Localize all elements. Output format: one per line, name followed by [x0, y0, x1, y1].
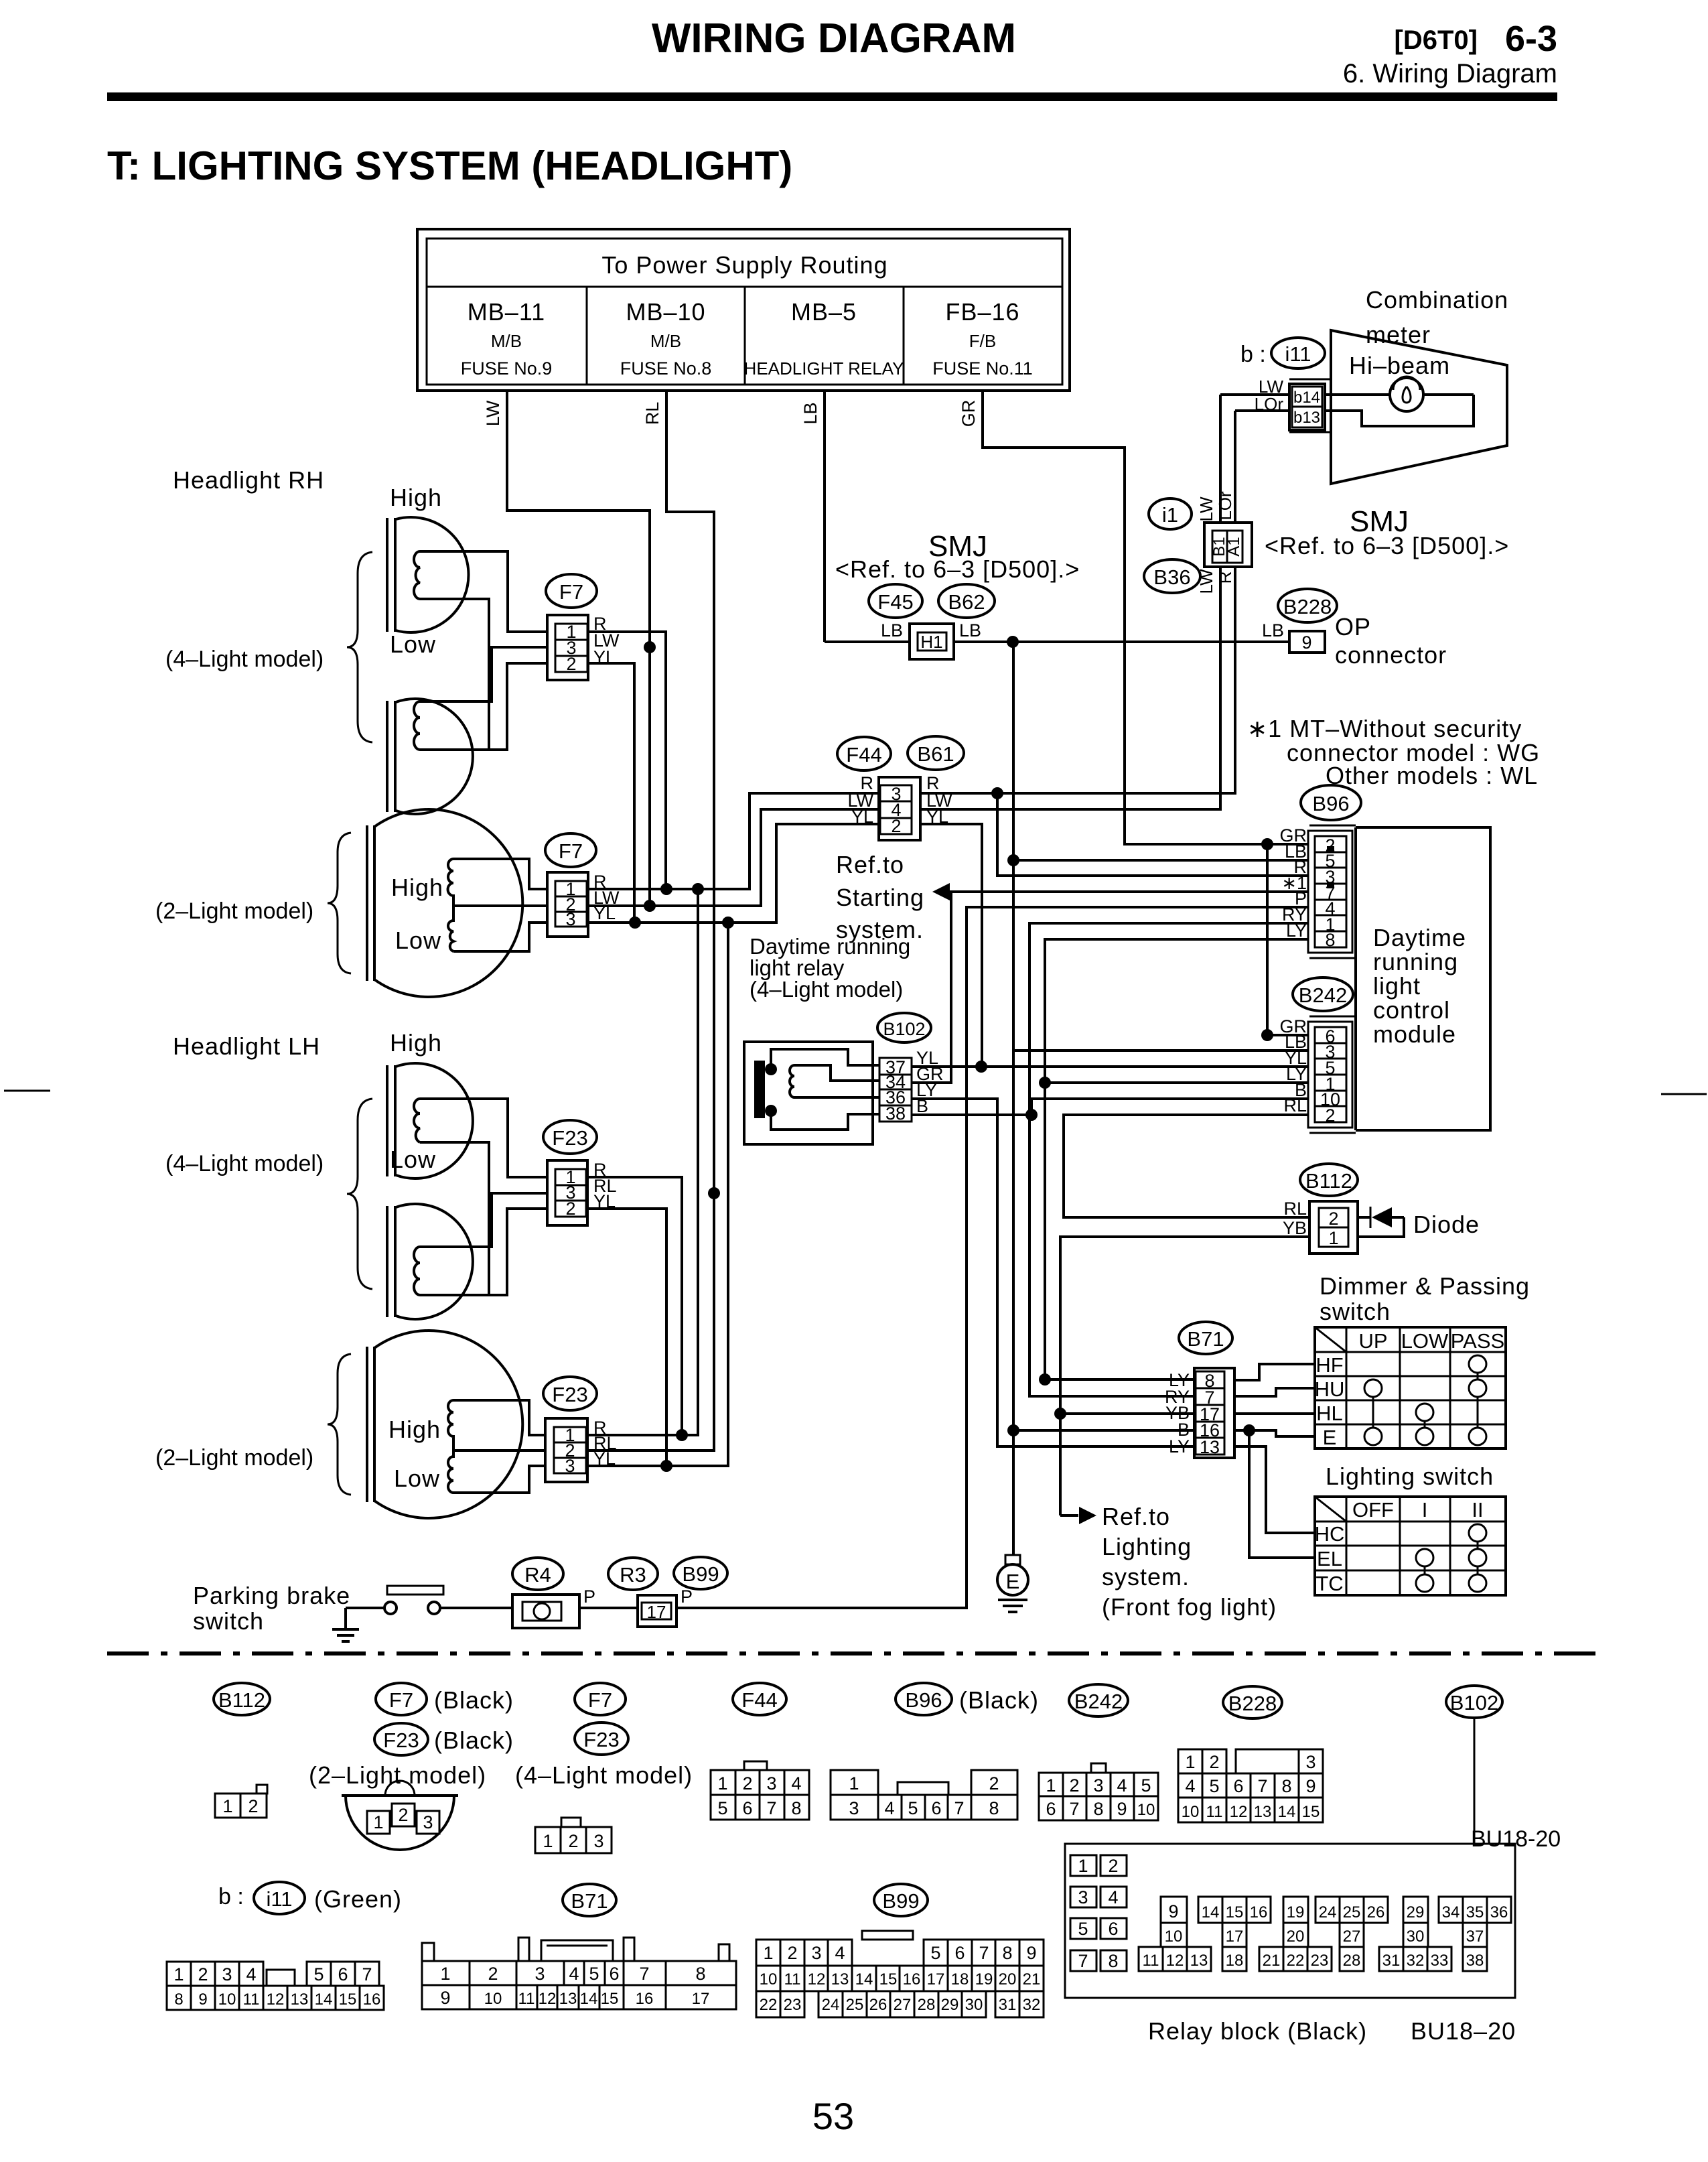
svg-text:HEADLIGHT RELAY: HEADLIGHT RELAY — [744, 358, 904, 379]
oval B102 relay — [877, 1013, 931, 1042]
svg-text:LY: LY — [1169, 1436, 1190, 1457]
svg-text:Diode: Diode — [1413, 1211, 1480, 1238]
svg-text:10: 10 — [218, 1990, 236, 2009]
svg-text:14: 14 — [1278, 1803, 1296, 1821]
headlight RH low bulb — [387, 699, 473, 814]
oval i1 — [1149, 498, 1192, 529]
svg-text:LOW: LOW — [1401, 1329, 1449, 1353]
svg-text:11: 11 — [243, 1990, 260, 2009]
wire 2-light RH low to F7 pin2 — [453, 904, 547, 907]
ground E symbol — [1005, 1555, 1020, 1564]
svg-text:(Front fog light): (Front fog light) — [1102, 1593, 1277, 1621]
svg-text:Relay block (Black): Relay block (Black) — [1148, 2017, 1367, 2045]
svg-text:LY: LY — [1286, 921, 1307, 941]
wire EL row branch — [1249, 1430, 1315, 1558]
svg-text:7: 7 — [766, 1798, 776, 1818]
svg-text:3: 3 — [222, 1964, 232, 1984]
wire SMJ B1 vertical LW — [1219, 395, 1222, 809]
headlight LH high filament coil — [414, 1099, 420, 1142]
svg-text:BU18–20: BU18–20 — [1411, 2017, 1516, 2045]
svg-text:8: 8 — [174, 1990, 183, 2009]
wire LH high bottom terminal — [420, 1142, 489, 1295]
svg-text:Low: Low — [395, 927, 441, 954]
svg-text:B112: B112 — [218, 1688, 265, 1712]
svg-text:LB: LB — [800, 402, 821, 424]
svg-text:LW: LW — [483, 400, 503, 426]
oval F23 LH — [543, 1120, 597, 1154]
svg-text:4: 4 — [1108, 1887, 1118, 1907]
svg-text:24: 24 — [822, 1996, 840, 2014]
relay block cluster 29-33 — [1403, 1897, 1428, 1923]
svg-text:High: High — [388, 1416, 441, 1443]
svg-text:6: 6 — [954, 1943, 965, 1963]
connector F44 B61 — [879, 777, 920, 840]
connector pinout F7 F23 2-light — [342, 1796, 458, 1850]
svg-text:YB: YB — [1283, 1218, 1307, 1238]
svg-text:32: 32 — [1023, 1996, 1041, 2014]
svg-text:(Black): (Black) — [959, 1686, 1039, 1714]
wire R riser to LH F23 pin1 — [587, 1177, 682, 1435]
svg-text:4: 4 — [1117, 1775, 1127, 1796]
wire GR relay pin34 coil feed riser — [912, 892, 951, 1083]
svg-text:LOr: LOr — [1255, 394, 1284, 414]
parking brake switch ground — [332, 1608, 359, 1641]
wire switch to R4 — [440, 1607, 512, 1609]
svg-text:27: 27 — [894, 1996, 912, 2014]
relay internal contact wire to pin 37 — [771, 1049, 879, 1069]
svg-text:2: 2 — [398, 1805, 408, 1825]
svg-text:system.: system. — [1102, 1563, 1190, 1591]
wire YB into B71 pin17 — [1060, 1412, 1194, 1415]
meter hi-beam lamp — [1390, 378, 1423, 411]
svg-text:13: 13 — [831, 1970, 849, 1988]
svg-text:2: 2 — [565, 1199, 575, 1219]
svg-text:32: 32 — [1407, 1952, 1425, 1970]
svg-text:II: II — [1472, 1498, 1483, 1522]
relay block pair 7 8 — [1070, 1950, 1096, 1971]
svg-text:HC: HC — [1315, 1522, 1345, 1546]
svg-text:2: 2 — [742, 1773, 752, 1794]
2-light RH filament coils — [448, 859, 453, 951]
svg-text:LB: LB — [881, 620, 903, 640]
svg-text:18: 18 — [1226, 1952, 1244, 1970]
oval F23 black — [374, 1723, 428, 1755]
svg-text:18: 18 — [951, 1970, 969, 1988]
svg-text:(Black): (Black) — [434, 1686, 514, 1714]
oval i11 meter — [1271, 338, 1325, 368]
oval B71 — [1179, 1322, 1232, 1354]
oval F23 4-light — [575, 1722, 628, 1755]
relay block cluster 9-13 — [1161, 1897, 1187, 1923]
svg-text:29: 29 — [941, 1996, 959, 2014]
svg-text:21: 21 — [1023, 1970, 1041, 1988]
svg-text:3: 3 — [565, 1456, 575, 1476]
svg-text:B228: B228 — [1228, 1692, 1277, 1715]
wire LH low bottom terminal to F23 pin2 — [420, 1209, 547, 1295]
svg-text:WIRING DIAGRAM: WIRING DIAGRAM — [652, 15, 1016, 62]
svg-text:Lighting switch: Lighting switch — [1326, 1463, 1494, 1490]
svg-text:8: 8 — [1325, 930, 1335, 950]
wire YL riser to LH F23 pin2 — [587, 1209, 666, 1466]
svg-text:23: 23 — [1311, 1952, 1329, 1970]
svg-text:B228: B228 — [1283, 595, 1332, 618]
headlight 2-light RH bulb — [367, 809, 522, 997]
svg-text:1: 1 — [1328, 1228, 1338, 1248]
svg-text:Ref.to: Ref.to — [1102, 1503, 1170, 1530]
wire F44 pin3 right to SMJ A1 — [920, 567, 1235, 793]
svg-text:28: 28 — [1343, 1952, 1361, 1970]
svg-text:22: 22 — [1287, 1952, 1305, 1970]
oval F7 4-light — [575, 1683, 626, 1715]
wire combination meter LW — [1220, 393, 1292, 396]
svg-text:F7: F7 — [389, 1688, 413, 1712]
wire R branch to B96 pin3 — [997, 793, 1315, 876]
svg-text:Headlight LH: Headlight LH — [173, 1032, 320, 1060]
dimmer and passing switch table — [1315, 1327, 1506, 1448]
svg-text:9: 9 — [440, 1988, 450, 2008]
svg-text:(4–Light model): (4–Light model) — [515, 1761, 693, 1789]
svg-text:13: 13 — [1200, 1437, 1220, 1457]
svg-text:13: 13 — [559, 1990, 577, 2008]
wire LB into B96 pin 5 — [1013, 859, 1315, 862]
parking brake contact right — [428, 1602, 440, 1614]
svg-text:9: 9 — [1026, 1943, 1036, 1963]
wire F44 pin4 right to SMJ B1 — [920, 567, 1220, 809]
oval F7 black — [376, 1683, 427, 1715]
headlight RH high filament coil — [414, 551, 420, 599]
relay coil wire to pin 36 — [794, 1096, 879, 1099]
svg-text:B242: B242 — [1074, 1690, 1123, 1713]
relay contact dots — [765, 1063, 777, 1075]
wire B71 pin8 to dimmer HF row — [1234, 1364, 1315, 1380]
svg-text:M/B: M/B — [491, 331, 522, 351]
registration mark left — [4, 1090, 50, 1092]
brace 4-light LH — [347, 1099, 372, 1289]
svg-text:M/B: M/B — [650, 331, 681, 351]
wire meter connector stubs — [1289, 379, 1331, 432]
wire 2-light LH low to F23 pin2 — [453, 1449, 547, 1452]
relay contact bar — [754, 1061, 765, 1118]
wire YL branch down to 2-light F23 pin3 — [587, 923, 728, 1466]
svg-text:16: 16 — [636, 1990, 654, 2008]
svg-text:<Ref. to 6–3 [D500].>: <Ref. to 6–3 [D500].> — [1265, 532, 1509, 559]
svg-text:1: 1 — [763, 1943, 773, 1963]
connector pinout B228 — [1178, 1749, 1226, 1773]
brace 2-light LH — [328, 1354, 351, 1495]
B96 cell 2 mark — [1327, 846, 1334, 852]
diode symbol — [1358, 1217, 1404, 1237]
headlight 2-light LH bulb — [367, 1331, 522, 1518]
svg-text:B99: B99 — [882, 1889, 919, 1913]
svg-text:FUSE No.9: FUSE No.9 — [461, 358, 553, 379]
svg-text:module: module — [1373, 1020, 1456, 1048]
svg-text:LB: LB — [959, 620, 981, 640]
svg-text:Headlight RH: Headlight RH — [173, 466, 324, 494]
svg-text:16: 16 — [363, 1990, 381, 2009]
svg-text:3: 3 — [535, 1964, 545, 1984]
svg-text:5: 5 — [1141, 1775, 1151, 1796]
svg-text:1: 1 — [173, 1964, 184, 1984]
svg-text:3: 3 — [593, 1831, 603, 1851]
svg-text:27: 27 — [1343, 1928, 1361, 1946]
relay block cluster 19-23 — [1283, 1897, 1308, 1923]
wire B102 to relay block — [1474, 1718, 1476, 1897]
svg-text:High: High — [390, 484, 442, 511]
connector pinout B71 — [422, 1938, 729, 1961]
svg-text:11: 11 — [784, 1970, 801, 1988]
svg-text:4: 4 — [791, 1773, 801, 1794]
svg-text:6: 6 — [1108, 1919, 1118, 1939]
svg-text:13: 13 — [1254, 1803, 1272, 1821]
wire B71 pin17 to dimmer HL row — [1234, 1412, 1315, 1415]
svg-text:17: 17 — [692, 1990, 710, 2008]
svg-text:Dimmer & Passing: Dimmer & Passing — [1320, 1272, 1530, 1300]
svg-text:31: 31 — [999, 1996, 1017, 2014]
oval B228 — [1278, 589, 1337, 622]
relay contact wire to pin 38 — [771, 1111, 879, 1130]
connector B228 pin 9 — [1289, 631, 1325, 653]
oval B242 bottom — [1069, 1684, 1128, 1716]
parking brake switch wire — [346, 1607, 385, 1609]
wire YL 2-light F7 pin3 to F44 pin2 — [588, 824, 879, 923]
wire 2-light RH common to F7 pin3 — [453, 923, 547, 951]
wire RL trunk from MB-10 — [587, 391, 714, 1450]
svg-text:37: 37 — [1466, 1928, 1484, 1946]
svg-text:2: 2 — [1328, 1209, 1338, 1229]
svg-text:31: 31 — [1382, 1952, 1401, 1970]
svg-text:UP: UP — [1358, 1329, 1387, 1353]
svg-text:F7: F7 — [559, 580, 583, 604]
dash separator line — [107, 1651, 1608, 1656]
svg-text:11: 11 — [518, 1990, 535, 2008]
wire RH low top terminal to F7 pin3 — [420, 647, 547, 701]
svg-text:15: 15 — [879, 1970, 898, 1988]
wire R 2-light F7 pin1 to F44 pin3 — [588, 793, 879, 889]
svg-text:B96: B96 — [905, 1688, 942, 1712]
headlight LH high bulb — [387, 1063, 473, 1178]
wire B71 pin13 to lighting switch HC row — [1234, 1446, 1315, 1533]
svg-text:6: 6 — [742, 1798, 752, 1818]
wire RH high bottom terminal — [420, 599, 489, 750]
daytime running light relay box B102 — [744, 1042, 873, 1144]
svg-text:HF: HF — [1315, 1353, 1343, 1377]
wire meter lamp return — [1322, 395, 1474, 426]
svg-text:7: 7 — [1078, 1951, 1088, 1971]
connector B71 — [1194, 1368, 1234, 1458]
svg-text:F23: F23 — [552, 1126, 587, 1150]
arrow ref to starting system — [932, 883, 950, 900]
svg-text:6-3: 6-3 — [1505, 19, 1557, 59]
svg-text:2: 2 — [787, 1943, 797, 1963]
wire YB B112 pin1 to B71 pin17 and fog light ref — [1060, 1237, 1311, 1515]
svg-text:2: 2 — [488, 1964, 498, 1984]
svg-text:11: 11 — [1143, 1952, 1159, 1970]
svg-text:21: 21 — [1263, 1952, 1281, 1970]
wire LW trunk into 2-light F7 pin2 and up to F44 pin4 — [588, 809, 879, 906]
connector pinout B96 — [831, 1770, 878, 1795]
connector F23 LH — [547, 1160, 587, 1225]
svg-text:FUSE No.8: FUSE No.8 — [620, 358, 712, 379]
svg-text:P: P — [583, 1586, 595, 1607]
svg-text:10: 10 — [484, 1990, 502, 2008]
svg-text:<Ref. to 6–3 [D500].>: <Ref. to 6–3 [D500].> — [835, 555, 1080, 583]
relay block cluster 34-38 — [1439, 1897, 1511, 1923]
wire B B242 pin10 stub — [1031, 1099, 1315, 1115]
connector B102 relay pins — [879, 1058, 912, 1122]
brace 2-light RH — [328, 833, 351, 973]
svg-text:5: 5 — [313, 1964, 324, 1984]
svg-text:9: 9 — [1117, 1799, 1127, 1819]
power supply routing box — [417, 229, 1070, 391]
svg-text:2: 2 — [568, 1831, 578, 1851]
svg-text:2: 2 — [1325, 1105, 1335, 1126]
svg-text:PASS: PASS — [1451, 1329, 1504, 1353]
svg-text:1: 1 — [849, 1773, 859, 1794]
svg-text:YL: YL — [851, 807, 873, 827]
svg-text:F45: F45 — [877, 590, 913, 614]
svg-text:LW: LW — [1196, 496, 1216, 522]
svg-text:19: 19 — [1287, 1903, 1305, 1921]
svg-text:17: 17 — [927, 1970, 945, 1988]
oval F7 RH — [546, 574, 597, 608]
svg-text:3: 3 — [1305, 1752, 1315, 1772]
svg-text:6: 6 — [1233, 1776, 1243, 1796]
svg-text:5: 5 — [589, 1964, 599, 1984]
relay coil — [790, 1065, 794, 1097]
svg-text:R: R — [1215, 571, 1235, 584]
svg-text:7: 7 — [639, 1964, 649, 1984]
svg-text:(4–Light model): (4–Light model) — [165, 647, 324, 672]
headlight LH low filament coil — [414, 1247, 420, 1295]
svg-text:3: 3 — [1093, 1775, 1103, 1796]
svg-text:2: 2 — [1209, 1752, 1219, 1772]
connector SMJ B1 A1 — [1204, 523, 1252, 567]
svg-text:7: 7 — [954, 1798, 964, 1818]
relay block cluster 14-18 — [1198, 1897, 1271, 1923]
svg-text:T: LIGHTING SYSTEM (HEADLIGHT: T: LIGHTING SYSTEM (HEADLIGHT) — [107, 143, 792, 188]
svg-text:F23: F23 — [383, 1729, 419, 1752]
svg-text:A1: A1 — [1225, 537, 1243, 556]
svg-text:4: 4 — [246, 1964, 256, 1984]
svg-text:Starting: Starting — [836, 884, 924, 911]
svg-text:20: 20 — [999, 1970, 1017, 1988]
svg-text:17: 17 — [647, 1602, 666, 1622]
svg-text:6: 6 — [931, 1798, 941, 1818]
wire RL B242 pin2 loop to B112 pin2 — [1064, 1115, 1315, 1217]
svg-text:F7: F7 — [588, 1688, 612, 1712]
svg-text:5: 5 — [1078, 1919, 1088, 1939]
connector pinout B99 — [862, 1931, 913, 1940]
svg-text:RL: RL — [1283, 1095, 1307, 1116]
svg-text:6: 6 — [1046, 1799, 1056, 1819]
wire 2-light RH high to F7 pin1 — [453, 859, 547, 889]
wire LB to H1 and B228 — [825, 640, 1291, 643]
oval B36 — [1144, 559, 1200, 593]
svg-text:B112: B112 — [1305, 1169, 1352, 1193]
svg-text:12: 12 — [267, 1990, 285, 2009]
svg-text:9: 9 — [1301, 632, 1311, 653]
wire R4 to B99 — [579, 1607, 638, 1609]
connector B96 — [1308, 831, 1352, 953]
wire B71 pin7 to dimmer HU row — [1234, 1388, 1315, 1396]
wire LB into B242 pin 3 — [1013, 1049, 1315, 1052]
oval F45 — [869, 584, 922, 618]
oval R3 — [608, 1558, 658, 1590]
svg-text:OFF: OFF — [1352, 1498, 1394, 1522]
svg-text:(4–Light model): (4–Light model) — [165, 1151, 324, 1176]
svg-text:53: 53 — [812, 2095, 854, 2137]
svg-text:28: 28 — [918, 1996, 936, 2014]
svg-text:B102: B102 — [883, 1019, 925, 1039]
connector B99 17 box — [638, 1595, 677, 1627]
svg-text:HL: HL — [1316, 1402, 1343, 1425]
svg-text:8: 8 — [1093, 1799, 1103, 1819]
wire meter lamp feed — [1322, 393, 1474, 396]
oval R4 — [512, 1558, 563, 1590]
svg-text:(4–Light model): (4–Light model) — [750, 977, 903, 1002]
svg-text:1: 1 — [543, 1831, 553, 1851]
svg-text:HU: HU — [1315, 1377, 1345, 1401]
svg-text:H1: H1 — [920, 632, 942, 652]
svg-text:10: 10 — [1182, 1803, 1200, 1821]
oval B99 — [674, 1557, 727, 1589]
oval B112 bottom — [214, 1683, 270, 1715]
svg-text:26: 26 — [869, 1996, 887, 2014]
svg-text:B102: B102 — [1450, 1691, 1498, 1714]
svg-text:3: 3 — [849, 1798, 859, 1818]
svg-text:High: High — [391, 874, 443, 901]
svg-text:7: 7 — [979, 1943, 989, 1963]
oval F7 2-light — [545, 833, 596, 867]
svg-text:[D6T0]: [D6T0] — [1395, 25, 1478, 55]
wire GR branch to B242 pin 6 — [1267, 844, 1315, 1035]
svg-text:16: 16 — [1250, 1903, 1268, 1921]
oval B242 — [1293, 977, 1353, 1011]
headlight RH low filament coil — [414, 701, 420, 750]
svg-text:29: 29 — [1407, 1903, 1425, 1921]
svg-text:1: 1 — [717, 1773, 727, 1794]
svg-text:3: 3 — [423, 1812, 433, 1832]
svg-text:YL: YL — [593, 903, 616, 923]
svg-text:8: 8 — [1108, 1951, 1118, 1971]
connector F23 2-light — [545, 1418, 587, 1482]
wire GR trunk from FB-16 — [983, 391, 1315, 844]
connector F7 RH — [547, 615, 588, 680]
wire *1 from starting system arrow to B96 pin7 — [948, 890, 1315, 893]
svg-text:9: 9 — [1168, 1901, 1178, 1921]
svg-text:LB: LB — [1262, 620, 1284, 640]
B96 cell 7 mark — [1327, 882, 1334, 888]
headlight LH low bulb — [387, 1204, 473, 1319]
svg-text:35: 35 — [1466, 1903, 1484, 1921]
wire LH high top terminal to F23 pin1 — [420, 1099, 547, 1177]
oval B71 bottom — [563, 1884, 616, 1916]
svg-text:10: 10 — [1165, 1928, 1183, 1946]
svg-text:B96: B96 — [1312, 792, 1349, 815]
svg-text:b14: b14 — [1293, 389, 1320, 407]
svg-text:Daytime: Daytime — [1373, 924, 1466, 951]
svg-text:12: 12 — [1230, 1803, 1248, 1821]
svg-text:B61: B61 — [917, 742, 954, 766]
svg-text:36: 36 — [1490, 1903, 1508, 1921]
connector F7 2-light — [547, 872, 588, 937]
svg-text:P: P — [681, 1586, 693, 1607]
svg-text:MB–10: MB–10 — [626, 298, 705, 326]
oval B62 — [938, 584, 995, 618]
svg-text:2: 2 — [989, 1773, 999, 1794]
svg-text:8: 8 — [1002, 1943, 1012, 1963]
svg-text:YL: YL — [926, 807, 948, 827]
